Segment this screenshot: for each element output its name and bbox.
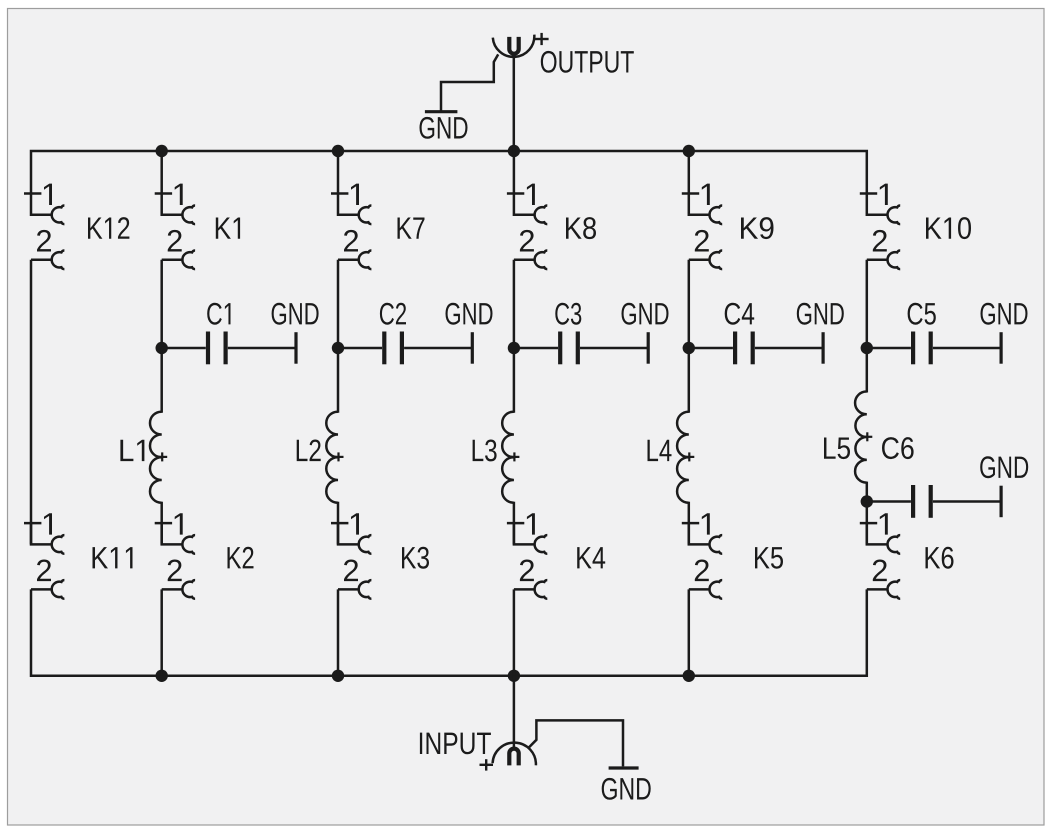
wire node to C3 plate [514, 347, 558, 350]
pin 2 lead [162, 259, 183, 262]
polarity mark of L3 [509, 456, 519, 458]
pin 1 contact arc [710, 205, 723, 224]
label K5 [755, 547, 783, 569]
wire INPUT pin to bottom bus [513, 676, 516, 749]
relay K11 [24, 513, 64, 598]
connector INPUT (BNC) [480, 743, 536, 771]
net label GND at INPUT [602, 778, 651, 800]
pin number 2 of K1 [168, 230, 182, 252]
connector shell arc [493, 743, 536, 766]
pin 1 contact arc [710, 535, 723, 554]
capacitor C3 [514, 332, 648, 365]
wire top bus to relay pin1 col 2 [337, 151, 340, 194]
label INPUT [420, 733, 491, 755]
wire K12 pin2 to K11 pin1 [30, 260, 33, 545]
pin 2 lead [689, 588, 710, 591]
pin 1 tick [155, 192, 172, 195]
pin number 1 of K6 [880, 513, 888, 534]
value label C4 [725, 303, 755, 325]
value label L5 [824, 437, 850, 459]
pin 1 lead [867, 523, 888, 545]
C4 plate 1 [733, 332, 737, 365]
wire INPUT shield to GND [528, 720, 623, 766]
junction capacitor node col 3 [508, 342, 520, 354]
junction top bus col 2 [332, 145, 344, 157]
pin 2 contact arc [182, 580, 195, 599]
label K12 [88, 217, 129, 239]
net label GND at C5 [981, 303, 1028, 325]
pin number 1 of K11 [44, 513, 52, 534]
label K11 [93, 547, 133, 568]
pin number 1 of K4 [527, 513, 535, 534]
GND pin tick [999, 332, 1002, 364]
value label C2 [380, 303, 406, 325]
wire C6 to GND pin [933, 500, 1001, 503]
pin 2 lead [514, 588, 535, 591]
junction capacitor node col 2 [332, 342, 344, 354]
pin 1 contact arc [535, 535, 548, 554]
wire node to C1 plate [162, 347, 206, 350]
wire OUTPUT shield to GND [441, 54, 498, 111]
relay K5 [682, 513, 722, 598]
polarity mark of L4 [684, 456, 694, 458]
connector OUTPUT (BNC) [493, 33, 549, 57]
wire node to C4 plate [689, 347, 733, 350]
pin 2 contact arc [535, 580, 548, 599]
pin number 1 of K9 [702, 184, 710, 205]
wire coil to bottom relay col 3 [513, 502, 516, 545]
relay K10 [860, 184, 900, 269]
pin 1 tick [507, 192, 524, 195]
pin 1 tick [860, 192, 877, 195]
wire top bus to relay pin1 col 4 [688, 151, 691, 194]
pin 1 tick [682, 522, 699, 525]
wire C2 to GND pin [404, 347, 472, 350]
wire relay pin2 to node col 3 [513, 260, 516, 348]
pin 1 tick [155, 522, 172, 525]
pin 2 contact arc [52, 250, 65, 269]
C2 plate 2 [400, 332, 404, 365]
relay K2 [155, 513, 195, 598]
value label L3 [473, 439, 497, 461]
GND pin tick [294, 332, 297, 364]
pin number 1 of K5 [702, 513, 710, 534]
label OUTPUT [541, 51, 634, 73]
pin 1 lead [162, 523, 183, 545]
value label L1 [120, 440, 144, 461]
pin 2 lead [867, 259, 888, 262]
pin 1 lead [689, 523, 710, 545]
junction bottom bus col 1 [156, 670, 168, 682]
wire C3 to GND pin [580, 347, 648, 350]
C5 plate 2 [929, 332, 933, 365]
capacitor C5 [867, 332, 1001, 365]
value label L2 [297, 439, 321, 461]
pin 1 tick [331, 522, 348, 525]
pin 2 lead [162, 588, 183, 591]
pin 1 contact arc [52, 535, 65, 554]
relay K9 [682, 184, 722, 269]
pin 1 contact arc [888, 205, 901, 224]
junction bottom bus col 2 [332, 670, 344, 682]
pin number 2 of K11 [37, 559, 51, 581]
pin 1 contact arc [888, 535, 901, 554]
relay K7 [331, 184, 371, 269]
junction C6 node [861, 495, 873, 507]
GND pin tick [647, 332, 650, 364]
junction top bus col 3 [508, 145, 520, 157]
wire top bus to relay pin1 col 1 [160, 151, 163, 194]
inductor L3 [502, 412, 514, 503]
label K7 [398, 217, 425, 238]
label K8 [566, 217, 596, 239]
label K1 [216, 217, 240, 238]
pin 2 contact arc [359, 580, 372, 599]
net label GND at C4 [797, 303, 844, 325]
C5 plate 1 [911, 332, 915, 365]
pin 2 contact arc [359, 250, 372, 269]
C6 plate 1 [911, 485, 915, 518]
pin number 1 of K8 [527, 184, 535, 205]
pin number 2 of K4 [520, 559, 534, 581]
wire bottom bus [31, 589, 867, 675]
pin 2 contact arc [888, 580, 901, 599]
pin number 2 of K2 [168, 559, 182, 581]
plus mark [480, 764, 494, 766]
pin number 2 of K7 [344, 230, 358, 252]
pin number 1 of K2 [175, 513, 183, 534]
pin 2 lead [338, 588, 359, 591]
GND pin tick [999, 486, 1002, 518]
value label C1 [207, 303, 230, 325]
wire node to C2 plate [338, 347, 382, 350]
pin 1 tick [24, 522, 41, 525]
wire coil to bottom relay col 1 [160, 502, 163, 545]
capacitor C4 [689, 332, 823, 365]
wire top bus [31, 151, 867, 193]
relay K3 [331, 513, 371, 598]
pin 1 lead [514, 523, 535, 545]
pin 2 contact arc [182, 250, 195, 269]
pin 2 lead [338, 259, 359, 262]
wire bottom relay pin2 to bottom bus col 3 [513, 589, 516, 675]
pin number 1 of K1 [175, 184, 183, 205]
pin 2 contact arc [710, 250, 723, 269]
wire coil to bottom relay col 4 [688, 502, 691, 545]
pin 1 tick [682, 192, 699, 195]
pin 1 contact arc [359, 535, 372, 554]
pin number 1 of K12 [44, 184, 52, 205]
wire top bus to relay pin1 col 3 [513, 151, 516, 194]
pin 2 lead [689, 259, 710, 262]
wire C1 to GND pin [228, 347, 296, 350]
U symbol [509, 37, 518, 54]
ground bar at OUTPUT [425, 110, 458, 113]
pin number 2 of K10 [873, 230, 887, 252]
label K6 [926, 547, 954, 569]
pin 2 lead [31, 259, 52, 262]
label K4 [577, 547, 605, 568]
net label GND at C2 [446, 303, 493, 325]
polarity mark of L2 [334, 456, 344, 458]
pin 1 lead [31, 193, 52, 215]
net label GND at OUTPUT [420, 117, 468, 139]
junction top bus col 1 [156, 145, 168, 157]
wire OUTPUT pin to top bus [513, 54, 516, 152]
pin number 1 of K10 [880, 184, 888, 205]
pin 1 contact arc [359, 205, 372, 224]
wire bottom relay pin2 to bottom bus col 4 [688, 589, 691, 675]
relay K6 [860, 513, 900, 598]
pin 2 contact arc [535, 250, 548, 269]
C4 plate 2 [751, 332, 755, 365]
polarity mark of L5 [862, 436, 872, 438]
wire relay pin2 to node col 1 [160, 260, 163, 348]
ground bar at INPUT [609, 766, 639, 769]
junction bottom bus col 4 [683, 670, 695, 682]
pin 1 tick [507, 522, 524, 525]
label K2 [228, 547, 254, 569]
C1 plate 1 [206, 332, 210, 365]
wire node to coil col 1 [160, 348, 163, 413]
wire node to coil L5 [866, 348, 869, 393]
wire L5 to C6 node [866, 482, 869, 502]
wire coil to bottom relay col 2 [337, 502, 340, 545]
capacitor C2 [338, 332, 472, 365]
pin number 2 of K3 [344, 559, 358, 581]
GND pin tick [821, 332, 824, 364]
inductor L4 [677, 412, 689, 503]
pin 1 contact arc [182, 205, 195, 224]
pin number 2 of K9 [695, 230, 709, 252]
C1 plate 2 [224, 332, 228, 365]
junction capacitor node col 4 [683, 342, 695, 354]
pin 1 tick [860, 522, 877, 525]
wire bottom relay pin2 to bottom bus col 2 [337, 589, 340, 675]
pin 1 lead [514, 193, 535, 215]
wire K10 pin2 to node [866, 260, 869, 348]
C3 plate 2 [576, 332, 580, 365]
net label GND at C6 [980, 456, 1028, 478]
junction top bus col 4 [683, 145, 695, 157]
capacitor C1 [162, 332, 296, 365]
polarity mark of L1 [157, 456, 167, 458]
wire C5 to GND pin [933, 347, 1001, 350]
junction capacitor node col 1 [156, 342, 168, 354]
inductor L2 [326, 412, 338, 503]
value label C6 [882, 437, 914, 459]
plus mark [535, 38, 549, 40]
relay K8 [507, 184, 547, 269]
wire node to C6 plate [867, 500, 911, 503]
pin 1 contact arc [182, 535, 195, 554]
pin number 1 of K7 [351, 184, 359, 205]
junction bottom bus col 3 [508, 670, 520, 682]
wire C6 node to K6 pin1 [866, 502, 869, 545]
value label L4 [648, 440, 672, 461]
capacitor C6 [867, 485, 1001, 518]
wire bottom relay pin2 to bottom bus col 1 [160, 589, 163, 675]
GND pin tick [471, 332, 474, 364]
pin number 1 of K3 [351, 513, 359, 534]
value label C5 [908, 303, 936, 325]
pin 1 lead [338, 523, 359, 545]
label K9 [741, 217, 774, 239]
relay K1 [155, 184, 195, 269]
connector shell arc [493, 35, 535, 57]
wire node to coil col 2 [337, 348, 340, 413]
pin number 2 of K8 [520, 230, 534, 252]
pin number 2 of K12 [37, 230, 51, 252]
relay K12 [24, 184, 64, 269]
net label GND at C3 [622, 303, 669, 325]
label K10 [926, 217, 971, 239]
pin 2 contact arc [710, 580, 723, 599]
U symbol (rotated) [509, 749, 518, 766]
junction C5 node [861, 342, 873, 354]
pin 1 lead [867, 193, 888, 215]
pin 1 contact arc [52, 205, 65, 224]
pin number 2 of K6 [873, 559, 887, 581]
pin 2 contact arc [52, 580, 65, 599]
value label C3 [555, 303, 581, 325]
pin 2 lead [514, 259, 535, 262]
pin 1 tick [331, 192, 348, 195]
C2 plate 1 [382, 332, 386, 365]
C3 plate 1 [558, 332, 562, 365]
pin 1 lead [31, 523, 52, 545]
pin 1 lead [689, 193, 710, 215]
C6 plate 2 [929, 485, 933, 518]
pin 1 contact arc [535, 205, 548, 224]
wire node to C5 plate [867, 347, 911, 350]
pin 2 lead [31, 588, 52, 591]
pin 1 tick [24, 192, 41, 195]
pin 1 lead [162, 193, 183, 215]
pin 2 contact arc [888, 250, 901, 269]
wire C4 to GND pin [755, 347, 823, 350]
wire node to coil col 3 [513, 348, 516, 413]
pin 1 lead [338, 193, 359, 215]
pin 2 lead [867, 588, 888, 591]
inductor L5 [855, 391, 867, 482]
inductor L1 [150, 412, 162, 503]
net label GND at C1 [272, 303, 319, 325]
wire relay pin2 to node col 2 [337, 260, 340, 348]
wire relay pin2 to node col 4 [688, 260, 691, 348]
label K3 [402, 547, 429, 569]
pin number 2 of K5 [695, 559, 709, 581]
wire node to coil col 4 [688, 348, 691, 413]
relay K4 [507, 513, 547, 598]
